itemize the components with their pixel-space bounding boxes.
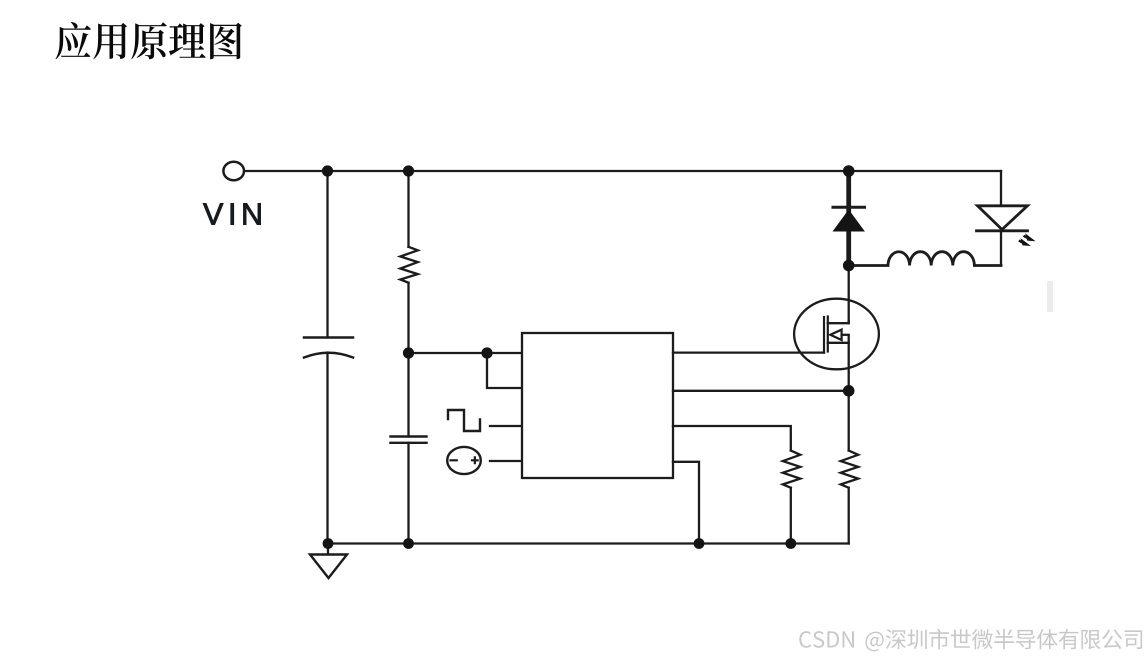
wire jog to IC pin2 <box>487 353 522 388</box>
node dot diode-inductor <box>843 260 855 272</box>
V1 minus sign <box>451 459 457 461</box>
wire C2 branch upper <box>407 353 409 437</box>
pulse waveform symbol <box>448 410 480 431</box>
LED DL triangle <box>978 206 1028 230</box>
node dot top R1 <box>403 165 414 176</box>
artifact smudge <box>1047 281 1053 312</box>
terminal VIN <box>223 162 244 181</box>
Q1 source bend <box>828 342 849 344</box>
Q1 drain bend <box>828 321 849 323</box>
node dot top diode <box>843 165 855 177</box>
node dot top C1 <box>322 165 333 176</box>
resistor R1 <box>400 247 418 283</box>
diode D1 body <box>833 210 865 232</box>
watermark CSDN <box>799 629 1142 652</box>
node dot jog <box>481 347 492 358</box>
diode D1 cathode bar <box>833 206 865 209</box>
LED arrow 2 <box>1019 241 1025 244</box>
IC U1 box <box>522 333 673 478</box>
wire bottom rail <box>328 542 849 544</box>
MOSFET Q1 circle <box>794 299 879 370</box>
Q1 gate bar <box>823 317 825 353</box>
watermark CSDN highlight <box>801 630 1144 653</box>
wire IC pin C to R2 <box>673 426 791 451</box>
wire source down to node <box>848 335 850 391</box>
wire IC to MOSFET gate <box>673 351 824 353</box>
wire IC pin D down <box>673 462 699 544</box>
wire LED to inductor <box>1000 231 1002 266</box>
wire V1 to IC pin4 <box>490 460 522 462</box>
LED arrow 1 <box>1019 235 1034 246</box>
wire R2 to bottom rail <box>790 488 792 544</box>
Q1 body arrow <box>830 330 841 340</box>
ground symbol <box>310 555 347 579</box>
wire C2 branch lower <box>407 443 409 544</box>
node dot source <box>843 385 855 397</box>
node dot C2 bottom <box>403 538 414 549</box>
wire node to IC pin1 <box>409 352 523 354</box>
wire R3 to bottom rail <box>848 488 850 544</box>
node dot R2 bottom <box>785 538 796 549</box>
node dot IC pinD bottom <box>694 538 705 549</box>
voltage source V1 <box>447 447 481 474</box>
wire top rail <box>244 170 1001 172</box>
wire R1 to node <box>407 283 409 353</box>
node dot R1-IC <box>403 347 414 358</box>
resistor R3 <box>841 451 859 488</box>
wire ground stub <box>327 544 329 555</box>
wire IC pin B to source node <box>673 390 849 392</box>
capacitor C2 bottom plate <box>391 442 427 444</box>
V1 plus sign <box>472 457 478 463</box>
capacitor C2 top plate <box>391 435 427 437</box>
inductor L1 <box>849 252 1001 266</box>
capacitor C1 top plate <box>304 336 353 339</box>
wire drain up to diode node <box>848 266 850 324</box>
capacitor C1 curved plate <box>304 353 353 358</box>
wire C1 branch lower <box>326 353 328 544</box>
wire source node to R3 <box>848 391 850 451</box>
Q1 channel bar <box>827 317 829 352</box>
diode D1 thick lead <box>846 171 851 266</box>
wire C1 branch upper <box>326 171 328 338</box>
svg-text:VIN: VIN <box>203 198 268 232</box>
Q1 body line <box>842 334 849 336</box>
title 应用原理图 <box>56 22 242 59</box>
node dot ground <box>323 538 334 549</box>
wire pulse to IC pin3 <box>490 425 522 427</box>
resistor R2 <box>783 451 801 488</box>
LED DL bar <box>977 229 1028 232</box>
wire right drop to LED <box>1000 171 1002 206</box>
wire R1 branch upper <box>407 171 409 247</box>
